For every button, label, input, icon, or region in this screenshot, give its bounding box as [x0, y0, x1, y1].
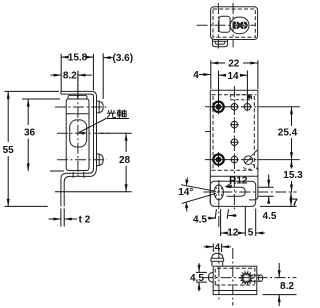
- hidden line dashed: [212, 169, 255, 171]
- svg-text:55: 55: [3, 145, 15, 156]
- svg-text:14: 14: [227, 71, 239, 82]
- dim 7 line: [290, 192, 292, 206]
- dim 36: [22, 99, 64, 171]
- body top bumps: [68, 95, 87, 99]
- dim 22: [211, 62, 258, 64]
- chain lines bottom view: [203, 277, 297, 279]
- svg-text:4.5: 4.5: [263, 211, 277, 222]
- centerline lower screw: [57, 159, 107, 161]
- svg-text:22: 22: [228, 59, 240, 70]
- body bottom ext: [260, 205, 296, 207]
- svg-text:4: 4: [193, 70, 199, 81]
- hidden dashed top: [212, 94, 257, 96]
- leader kozhiku: [79, 119, 129, 133]
- dim (3.6) arrow tail: [103, 57, 113, 59]
- optical window (oval): [70, 120, 87, 147]
- centerline optical axis: [57, 132, 111, 134]
- bottom view dimensions: [196, 244, 297, 307]
- dim 4.5 right arrows: [268, 175, 270, 204]
- svg-text:8.2: 8.2: [280, 281, 294, 292]
- bottom view rect: [213, 266, 257, 294]
- top view black rings: [232, 21, 248, 30]
- small circles: [231, 104, 238, 111]
- svg-text:4.5: 4.5: [190, 273, 204, 284]
- label 光軸 (optical axis) drawn as vector glyphs: [107, 110, 126, 118]
- svg-text:5: 5: [248, 227, 254, 238]
- hidden side dashed lines: [213, 96, 254, 170]
- centerline vertical (body axis): [77, 71, 79, 177]
- top view crosshairs: [197, 24, 256, 26]
- arc slot: [227, 187, 246, 196]
- dim 8.2 arrows: [51, 74, 93, 76]
- svg-text:25.4: 25.4: [278, 128, 298, 139]
- bracket lip top: [61, 91, 97, 206]
- svg-text:R12: R12: [229, 175, 248, 186]
- left bulge: [208, 273, 213, 283]
- dim 4: [204, 244, 231, 253]
- bottom ext lines: [215, 207, 256, 236]
- small square connector: [248, 95, 251, 98]
- 4.5 left arrows: [208, 216, 237, 219]
- svg-text:15.3: 15.3: [283, 170, 303, 181]
- svg-text:4.5: 4.5: [193, 215, 207, 226]
- lower screw: [97, 154, 104, 166]
- dim 25.4: [291, 107, 293, 160]
- ext lines top: [61, 53, 103, 99]
- dim 55: [5, 91, 60, 206]
- ext lines 22: [211, 60, 258, 89]
- svg-text:15.8: 15.8: [68, 53, 88, 64]
- dashed inset: [215, 268, 255, 285]
- slot ext lines: [259, 187, 274, 196]
- pivot boss bump: [212, 40, 227, 47]
- sensor body outline: [66, 99, 89, 171]
- svg-text:36: 36: [24, 127, 36, 138]
- front body outline (bracket plate): [210, 90, 258, 204]
- dim t2: [49, 209, 78, 227]
- bracket bend ticks: [73, 172, 84, 178]
- connector stadium: [230, 17, 249, 33]
- tilted screw in slot: [244, 156, 253, 165]
- dim 28: [55, 133, 132, 192]
- svg-text:t 2: t 2: [79, 215, 91, 226]
- optical tick left edge: [205, 131, 211, 133]
- dim 8.2: [263, 263, 297, 306]
- dim 15.8 line: [61, 56, 93, 58]
- 14deg arrows: [186, 178, 187, 212]
- svg-text:12: 12: [227, 228, 239, 239]
- svg-text:7: 7: [292, 197, 298, 208]
- dome: [211, 253, 224, 266]
- internal line: [213, 290, 257, 292]
- dimension value labels (front view): [178, 59, 303, 239]
- ext lines 14: [219, 71, 248, 104]
- centerline upper screw: [55, 106, 107, 108]
- pivot oval: [214, 185, 223, 200]
- top view body: [211, 7, 258, 40]
- tilted oval dashes: [215, 187, 223, 197]
- knurl star: [240, 272, 253, 284]
- dimension value labels (left view): [3, 53, 133, 226]
- svg-text:8.2: 8.2: [63, 71, 77, 82]
- arrowheads (front view dimensions): [185, 62, 293, 235]
- small circle ticks: [230, 102, 252, 164]
- svg-text:28: 28: [119, 155, 131, 166]
- body parting line: [66, 113, 89, 115]
- dim 4.5 left: [196, 263, 207, 291]
- svg-text:4: 4: [215, 242, 221, 253]
- 14 degree lines: [181, 185, 216, 204]
- connector shaft: [248, 275, 260, 281]
- svg-text:(3.6): (3.6): [113, 53, 134, 64]
- upper screw: [97, 101, 104, 113]
- R12 leader: [226, 183, 232, 187]
- front mounting holes (bullseye): [211, 99, 226, 167]
- hidden connector rect dashed: [231, 95, 252, 100]
- svg-text:14°: 14°: [178, 187, 193, 198]
- arrowheads (left view dimensions): [7, 56, 128, 221]
- dashed inset: [213, 9, 255, 37]
- dim 4 arrow: [199, 74, 211, 76]
- tab outline (bent leg, front): [210, 181, 255, 206]
- dim 12 and 5: [221, 232, 265, 234]
- head block: [219, 16, 230, 32]
- dim 15.3: [291, 160, 293, 192]
- step line: [210, 175, 258, 177]
- chain lines front: [205, 106, 258, 108]
- dim 14: [219, 74, 248, 76]
